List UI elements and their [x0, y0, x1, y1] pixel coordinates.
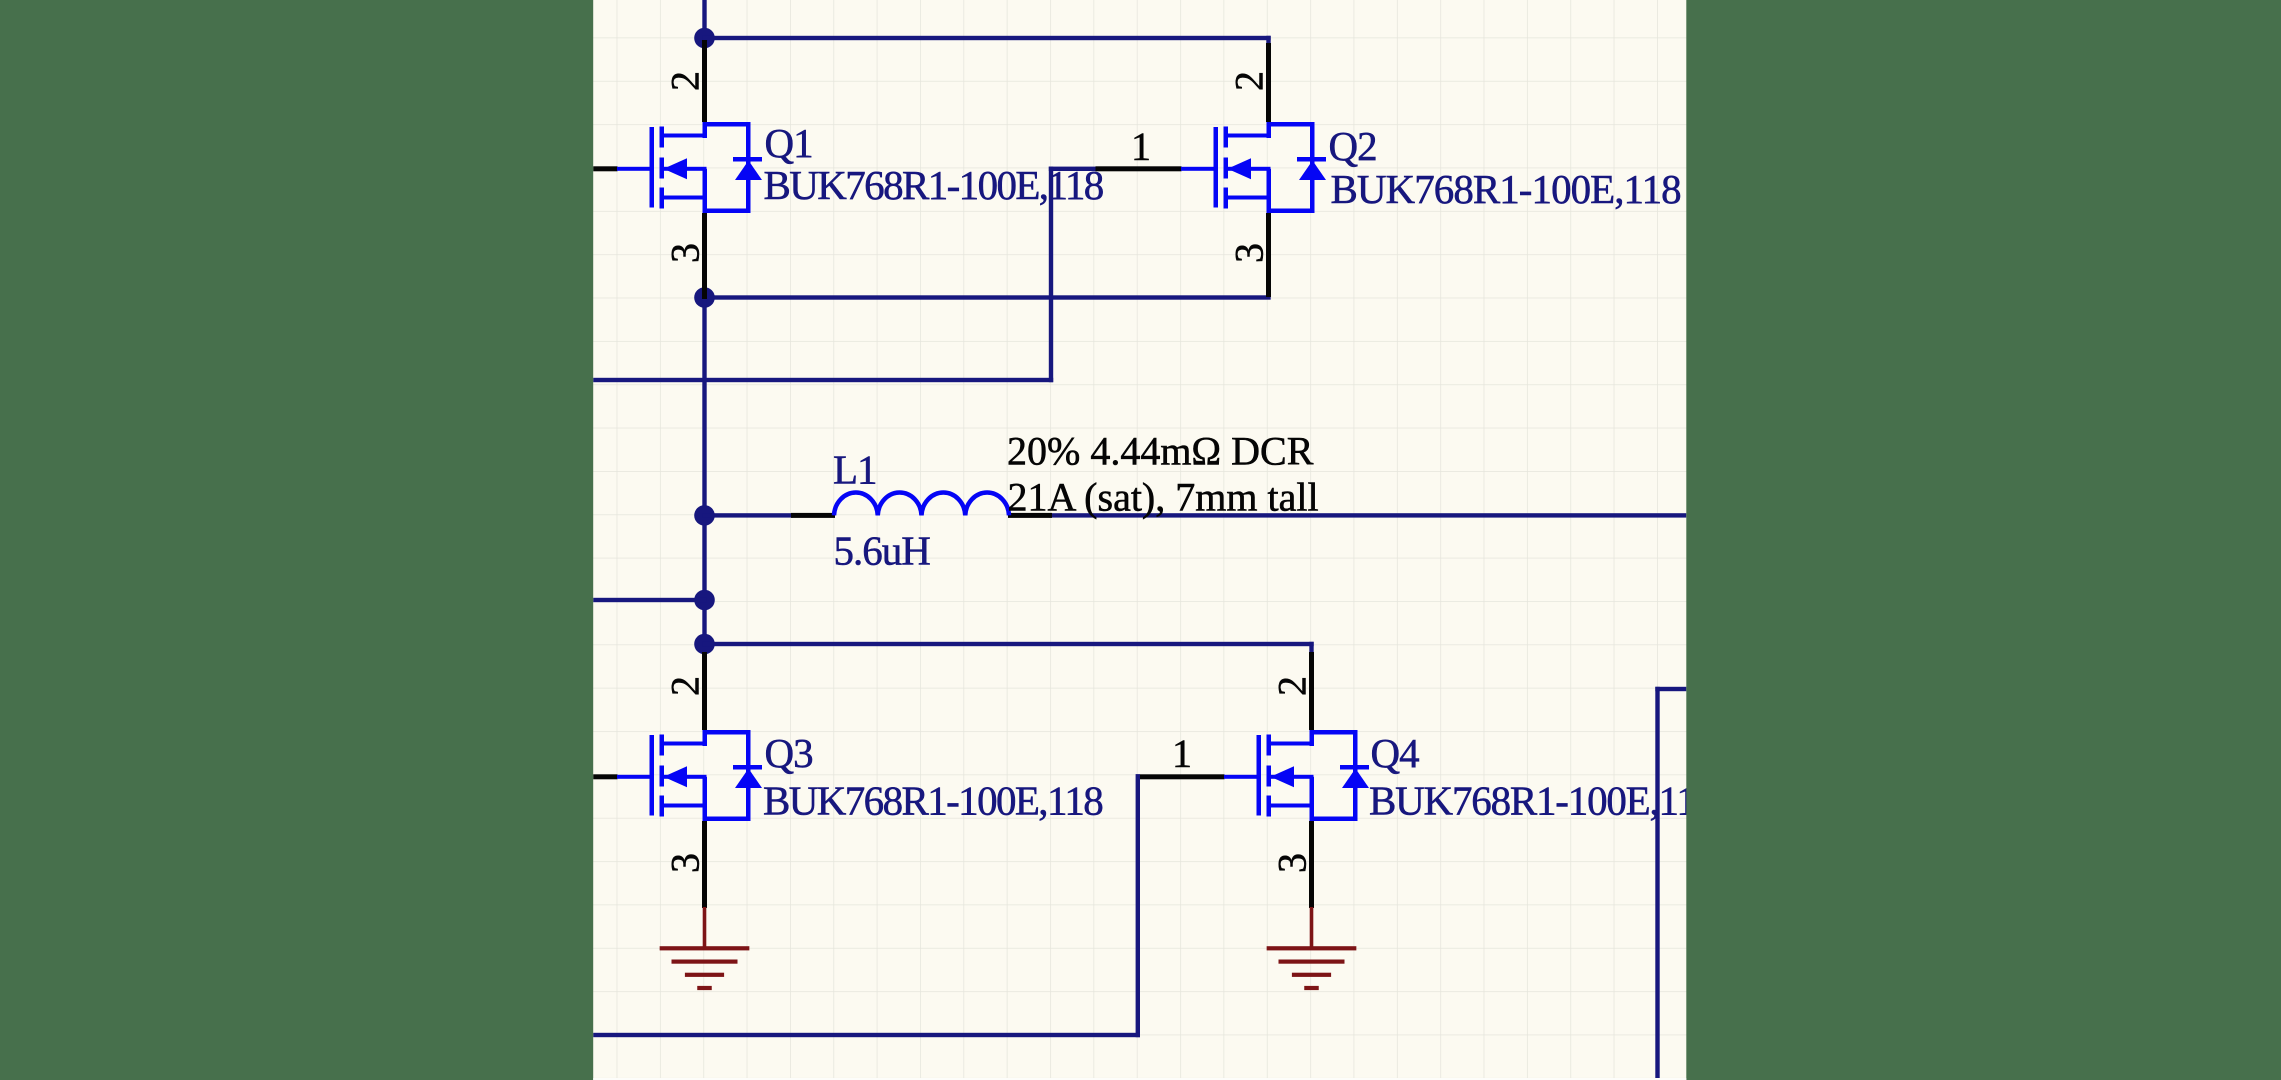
svg-text:Q2: Q2 — [1329, 123, 1377, 169]
wire bottom gate bus — [593, 1033, 1140, 1037]
pin 3 line Q3 source — [702, 821, 707, 908]
left border panel — [0, 0, 593, 1080]
junction dot node SW-top — [694, 28, 715, 49]
pin 3 line Q1 source — [702, 213, 707, 299]
svg-text:2: 2 — [663, 677, 708, 696]
wire node between Q1 source and Q2 source — [702, 295, 1270, 299]
svg-text:Q1: Q1 — [765, 120, 813, 166]
svg-text:Q3: Q3 — [765, 730, 813, 776]
pin L1 left stub (black) — [791, 513, 835, 518]
wire L1 left — [702, 513, 793, 517]
svg-text:5.6uH: 5.6uH — [834, 528, 931, 574]
transistor Q2 (NMOS symbol) — [1181, 122, 1326, 213]
pin 3 line Q2 source — [1266, 213, 1271, 297]
svg-text:3: 3 — [663, 244, 708, 263]
wire top rail to Q2 drain — [702, 36, 1270, 40]
svg-text:BUK768R1-100E,118: BUK768R1-100E,118 — [1369, 778, 1715, 824]
pin 3 line Q4 source — [1309, 821, 1314, 908]
junction dot Q3 drain node — [694, 634, 715, 655]
pin 1 line Q2 gate (black) — [1096, 166, 1182, 171]
pin 2 line Q3 drain — [702, 652, 707, 730]
svg-text:3: 3 — [1227, 244, 1272, 263]
transistor Q4 (NMOS symbol) — [1224, 730, 1369, 821]
svg-text:2: 2 — [663, 72, 708, 91]
pin L1 right stub (black) — [1008, 513, 1052, 518]
pin 1 line Q3 gate (black) — [593, 774, 617, 779]
wire L1 output to right edge — [1049, 513, 1686, 517]
right border panel — [1686, 0, 2281, 1080]
svg-text:BUK768R1-100E,118: BUK768R1-100E,118 — [1331, 166, 1681, 212]
pin 2 line Q2 drain — [1266, 43, 1271, 122]
ground (Q3 source) — [660, 907, 750, 990]
svg-text:20% 4.44mΩ DCR: 20% 4.44mΩ DCR — [1007, 429, 1314, 474]
inductor L1 coil — [834, 493, 1009, 516]
svg-text:2: 2 — [1270, 677, 1315, 696]
junction dot L1 node — [694, 505, 715, 526]
junction dot Q1 source node — [694, 287, 715, 308]
svg-text:21A (sat), 7mm tall: 21A (sat), 7mm tall — [1008, 475, 1319, 520]
wire right bus to edge — [1655, 687, 1686, 691]
wire VIN vertical to top edge — [702, 0, 706, 40]
wire main vertical column — [702, 295, 706, 654]
wire Q3/Q4 drain rail — [702, 642, 1313, 646]
ground (Q4 source) — [1267, 907, 1357, 990]
svg-text:3: 3 — [663, 854, 708, 873]
wire Q2 gate bus vertical riser — [1049, 167, 1053, 383]
svg-text:BUK768R1-100E,118: BUK768R1-100E,118 — [763, 778, 1102, 824]
wire Q2 drain corner stub — [1266, 36, 1270, 45]
svg-text:1: 1 — [1172, 731, 1192, 776]
pin 2 line Q1 drain — [702, 40, 707, 122]
wire Q4 gate vertical riser — [1136, 774, 1140, 1037]
svg-text:Q4: Q4 — [1371, 730, 1420, 776]
svg-text:1: 1 — [1131, 124, 1151, 169]
pin 2 line Q4 drain — [1309, 652, 1314, 730]
svg-text:2: 2 — [1227, 72, 1272, 91]
transistor Q3 (NMOS symbol) — [617, 730, 762, 821]
pin 1 line Q4 gate (black) — [1140, 774, 1225, 779]
svg-text:L1: L1 — [833, 447, 877, 493]
wire Q2 gate horizontal — [1049, 167, 1096, 171]
wire right vertical bus — [1655, 687, 1659, 1080]
wire left tap horizontal — [593, 598, 707, 602]
transistor Q1 (NMOS symbol) — [617, 122, 762, 213]
bottom edge strip — [593, 1078, 1686, 1080]
wire Q4 drain corner stub — [1309, 642, 1313, 653]
svg-text:BUK768R1-100E,118: BUK768R1-100E,118 — [764, 162, 1103, 208]
wire Q2 gate bus horizontal — [593, 378, 1053, 382]
pin 1 line Q1 gate (black) — [593, 166, 617, 171]
junction dot left tap node — [694, 590, 715, 611]
svg-text:3: 3 — [1270, 854, 1315, 873]
